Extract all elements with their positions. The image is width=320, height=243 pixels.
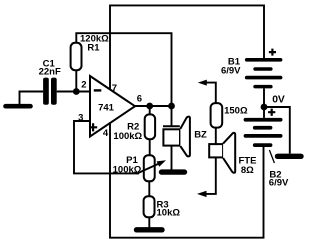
- wire B1 minus to 0V node: [263, 88, 265, 107]
- svg-text:10kΩ: 10kΩ: [157, 207, 181, 218]
- svg-text:R1: R1: [87, 42, 100, 53]
- wire pin3 loop to P1 wiper: [74, 121, 139, 173]
- ground R3: [137, 227, 163, 232]
- arrow 150Ω top connection: [198, 80, 216, 104]
- wire 0V to B2 plus: [263, 107, 265, 118]
- battery B1: [245, 58, 283, 88]
- svg-text:0V: 0V: [272, 94, 285, 105]
- wire output pin6: [135, 105, 172, 107]
- wire 0V to right ground: [264, 107, 290, 154]
- label R2 100kΩ: [113, 122, 142, 142]
- op-amp minus input: [94, 89, 102, 91]
- buzzer BZ: [163, 117, 190, 157]
- wire top rail V+: [110, 5, 264, 88]
- potentiometer P1 body: [144, 155, 155, 181]
- resistor 150Ω: [211, 103, 223, 128]
- op-amp plus input: [89, 123, 97, 131]
- label B1 6/9V: [221, 56, 241, 76]
- svg-text:150Ω: 150Ω: [224, 106, 248, 117]
- resistor R3: [144, 196, 155, 217]
- label R3 10kΩ: [157, 199, 181, 218]
- svg-text:6: 6: [137, 93, 142, 104]
- ground BZ: [162, 169, 185, 174]
- speaker FTE: [209, 133, 235, 173]
- potentiometer P1 wiper arrow: [137, 160, 167, 174]
- svg-text:100kΩ: 100kΩ: [113, 164, 142, 175]
- battery B2: [244, 118, 283, 147]
- label FTE 8Ω: [239, 155, 257, 176]
- wire BZ bottom lead: [171, 146, 173, 170]
- wire pin4 to bottom rail to B2 minus: [110, 122, 264, 237]
- svg-text:BZ: BZ: [194, 130, 207, 141]
- ground input: [6, 104, 31, 109]
- wire R2 to P1: [149, 139, 151, 155]
- leader line B2: [269, 150, 274, 163]
- wire feedback R1 top to output node: [76, 33, 171, 106]
- svg-text:22nF: 22nF: [39, 67, 61, 78]
- label B2 6/9V: [269, 169, 289, 188]
- node output R2: [146, 103, 153, 110]
- wire FTE bottom to arrow: [206, 157, 216, 194]
- wire R1 bottom lead: [75, 70, 77, 91]
- label C1 22nF: [39, 58, 61, 77]
- wire P1 to R3: [148, 181, 150, 196]
- resistor R2: [145, 114, 155, 139]
- wire BZ top lead: [171, 106, 173, 126]
- svg-text:741: 741: [98, 103, 115, 114]
- svg-text:6/9V: 6/9V: [269, 177, 289, 188]
- op-amp U1 741: [90, 76, 135, 137]
- wire R3 bottom lead: [148, 217, 150, 228]
- svg-text:7: 7: [112, 83, 117, 94]
- wire C1 to pin 2: [57, 91, 90, 93]
- wire R2 top lead: [149, 106, 151, 114]
- svg-text:2: 2: [81, 80, 86, 91]
- label + B2: [268, 109, 275, 116]
- svg-text:100kΩ: 100kΩ: [113, 131, 142, 142]
- label P1 100kΩ: [113, 155, 142, 175]
- label + B1: [269, 49, 276, 56]
- node pin2 junction: [73, 88, 80, 95]
- svg-text:8Ω: 8Ω: [241, 165, 254, 176]
- node 0V: [261, 104, 268, 111]
- label 120kΩ R1: [80, 33, 109, 53]
- wire input left to C1: [20, 92, 44, 105]
- ground right: [278, 154, 302, 159]
- arrow FTE bottom connection: [197, 191, 207, 197]
- capacitor C1: [43, 78, 57, 105]
- resistor R1: [71, 43, 82, 70]
- wire 150Ω to FTE: [215, 128, 217, 145]
- svg-text:6/9V: 6/9V: [221, 65, 241, 76]
- node output feedback/BZ: [168, 103, 175, 110]
- svg-text:4: 4: [103, 128, 109, 139]
